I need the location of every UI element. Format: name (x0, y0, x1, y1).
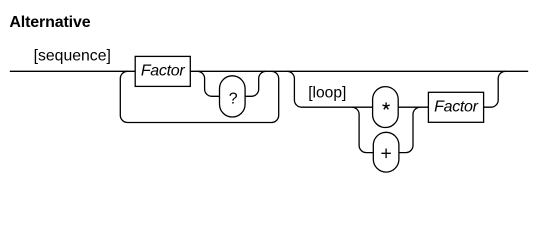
wire "+" branch exit (399, 107, 421, 152)
svg-text:[loop]: [loop] (308, 85, 346, 102)
text + (381, 149, 390, 159)
railroad syntax diagram: Alternative (0, 0, 538, 183)
svg-text:[sequence]: [sequence] (34, 48, 111, 65)
terminal stadium "*" (373, 87, 399, 128)
terminal stadium "?" (220, 76, 246, 117)
wire main rail left (10, 70, 135, 72)
wire loop-structure exit ascent (484, 71, 506, 107)
wire main rail right (bypass over ? and loop) (190, 70, 528, 72)
svg-text:Factor: Factor (141, 63, 186, 80)
nonterminal box Factor (second) (428, 92, 483, 122)
wire optional "?" dip exit (245, 71, 266, 96)
svg-text:?: ? (229, 91, 238, 108)
text * (382, 102, 389, 109)
wire iteration loop (bottom return) (120, 71, 278, 122)
svg-text:Alternative: Alternative (9, 14, 90, 31)
wire between * and Factor (398, 106, 428, 108)
terminal stadium "+" (373, 132, 399, 172)
nonterminal box Factor (first) (135, 56, 190, 86)
wire loop-structure entry descent (287, 71, 372, 107)
svg-text:Factor: Factor (434, 98, 479, 115)
wire optional "?" dip entry (197, 71, 219, 96)
wire "+" branch entry (352, 107, 373, 152)
